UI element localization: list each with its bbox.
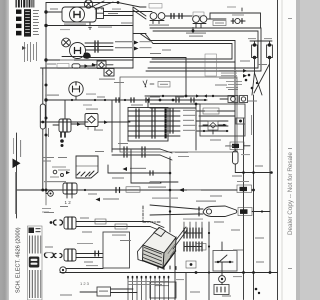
relay K3 pins — [150, 21, 164, 24]
junction dot r1 — [252, 171, 255, 174]
label relay txt — [88, 68, 97, 69]
wire K4 up link — [210, 13, 226, 19]
plug P2 tail dot2 — [61, 144, 64, 147]
wire top edge — [46, 3, 146, 8]
rear light row label — [148, 187, 166, 188]
alternator brush marks — [74, 12, 80, 18]
fuse F4 wire — [80, 65, 95, 67]
label horn row2 — [152, 198, 178, 199]
left margin vertical wire label text — [20, 140, 21, 157]
lower plug A body — [64, 217, 76, 229]
sheet number marks right margin — [288, 18, 292, 19]
label fan left — [95, 151, 104, 152]
injection pump box edge — [131, 150, 161, 183]
wire accessory row — [41, 121, 89, 123]
wire resistor drop — [107, 165, 109, 173]
label resistor 2 — [103, 198, 119, 199]
enclosure glyph cluster — [143, 80, 154, 87]
label wire red — [108, 13, 118, 14]
bottom switch S2 — [215, 242, 233, 263]
label right y140 — [210, 140, 221, 141]
harness loop B — [148, 31, 258, 68]
wire terminal 4 drop — [185, 58, 187, 97]
relay box K3 label — [149, 4, 162, 9]
dash boundary vertical — [142, 206, 144, 222]
plug P2 tail dot — [60, 139, 64, 143]
label wire 11 — [112, 9, 121, 10]
lower plug B body — [64, 249, 76, 261]
wire lower A2 — [76, 226, 150, 228]
label breaker left — [227, 7, 236, 8]
wire R1 bottom — [235, 164, 271, 173]
glow box mid right — [230, 142, 244, 150]
svg-text:SCH. ELECT. 4626 (2000): SCH. ELECT. 4626 (2000) — [16, 227, 22, 293]
label panel top — [131, 105, 143, 106]
harness loop C — [140, 34, 235, 63]
glowplug arrow mid — [179, 188, 185, 192]
starter M1 motor — [70, 43, 86, 59]
wire y182 short — [150, 181, 178, 183]
relay cluster dots — [203, 124, 228, 132]
wire resistor row — [108, 172, 170, 174]
wire harness row96 — [145, 95, 235, 97]
inline label box A1 — [95, 219, 106, 224]
bottom device box — [214, 285, 229, 295]
label shift 45 — [189, 36, 203, 37]
right trunk x243 — [243, 118, 245, 273]
glowplug black square — [240, 187, 248, 191]
sol wire vertical text — [251, 115, 252, 135]
wire lower A1 — [76, 221, 150, 223]
label top lamp row — [44, 181, 66, 182]
starter body line — [62, 56, 82, 58]
small labeled box x196 — [196, 244, 206, 251]
wire acc bus row — [46, 59, 133, 61]
relay starter cluster diamond — [210, 123, 216, 129]
bold glyph column at panel edge — [165, 109, 167, 139]
alternator connector box — [97, 8, 104, 19]
headlight option glyph cluster — [50, 167, 70, 178]
label fuse row — [248, 38, 256, 39]
ECU hatch lines — [143, 248, 162, 269]
horn tail pins — [198, 207, 200, 216]
ECU side hatch — [166, 241, 176, 257]
label right y262 — [256, 262, 264, 263]
ECU tab — [154, 228, 166, 237]
wire fuse header — [250, 40, 272, 42]
wire from bottom box b — [111, 292, 138, 294]
wire alternator excite — [104, 15, 134, 17]
lamp symbol circle — [48, 191, 54, 197]
pump box — [103, 232, 130, 268]
diag drop from rows — [160, 149, 172, 160]
label rows topright — [175, 152, 188, 153]
label bot y296 — [222, 296, 231, 297]
relay K1 diamond — [99, 62, 105, 68]
harness loop A — [146, 28, 261, 71]
black glyph cluster right — [243, 69, 258, 89]
instrument panel box — [128, 108, 168, 142]
wire horn out — [252, 211, 270, 213]
relay panel inner label 1 — [205, 111, 217, 112]
row stub wires right — [196, 111, 235, 131]
label wire 30a — [50, 9, 58, 10]
starter solenoid blob — [83, 53, 91, 59]
glow relay K2 box — [104, 69, 114, 77]
wire F2 branch right — [269, 64, 272, 150]
key row junction dots — [71, 99, 206, 101]
label right y90 — [228, 89, 238, 90]
bottom right glyphs — [255, 288, 260, 294]
lower circle dot — [62, 269, 64, 271]
label row y104 — [150, 97, 160, 98]
label row y104b — [175, 97, 184, 98]
label y194 — [88, 194, 97, 195]
wire main top horizontal — [46, 25, 133, 27]
inline connector pair 1 — [171, 14, 174, 19]
label y183 — [150, 182, 160, 183]
connector grid 1 frame — [184, 232, 202, 234]
label bus small2 — [48, 128, 49, 137]
wire from bottom box a — [111, 288, 134, 290]
lower-left sym a dot — [50, 221, 53, 224]
wire F2 stub up — [269, 41, 271, 45]
key switch contacts — [73, 82, 80, 92]
wire plug row — [71, 123, 85, 125]
left margin vertical text — [15, 172, 16, 214]
aux relay box top a — [228, 96, 238, 103]
fuse F4 label box — [57, 64, 69, 69]
connector row 4 — [128, 124, 180, 128]
wire bottom trunk — [60, 272, 278, 274]
inline connector pair 2 — [179, 14, 182, 19]
label right y222 — [214, 222, 224, 223]
relay K5 box — [85, 114, 98, 127]
connector row 5 — [128, 129, 180, 133]
ECU dark bottom edge — [143, 251, 176, 268]
left bus ACC — [42, 68, 44, 190]
inline connector pairs on key row — [116, 98, 194, 102]
wire K4 out — [207, 18, 226, 20]
left margin drop wire — [16, 133, 18, 218]
wire mid riser x196 — [195, 104, 197, 150]
horn arrow connector — [203, 206, 237, 217]
plug P2 drop — [64, 100, 66, 119]
wire fuse F2 down — [254, 58, 270, 94]
wire y122 to panel edge — [113, 121, 130, 123]
relay K3 coil circle A — [150, 13, 157, 20]
cab enclosure box — [120, 77, 237, 152]
arrow fuse feed — [85, 64, 89, 68]
lower-left connector sym b — [45, 253, 47, 258]
front light plug pins — [67, 183, 72, 194]
connector row 2 — [128, 114, 180, 118]
label row161 — [42, 161, 51, 162]
label y280 rows — [128, 280, 168, 283]
lamp housing inner line — [76, 165, 98, 167]
glowplug label box right — [237, 185, 252, 193]
horn black square — [240, 209, 248, 214]
wire alternator feed — [46, 11, 62, 13]
alternator fan circle — [84, 0, 92, 8]
arrow K5 out — [104, 120, 108, 124]
label y262 — [84, 262, 93, 263]
label under relay — [99, 79, 115, 80]
label batt — [140, 41, 152, 42]
svg-text:1 2 3: 1 2 3 — [80, 281, 90, 286]
label fuse link — [47, 64, 56, 65]
alternator pulley lines — [93, 1, 114, 9]
label above K5 — [86, 109, 98, 110]
wire starter terminal 2 — [86, 46, 114, 48]
ECU wires up right — [173, 227, 187, 249]
alternator G1 body — [62, 7, 96, 22]
small cluster right of grids — [186, 261, 196, 268]
label right y101 — [248, 101, 257, 102]
wire y190 to box — [207, 189, 237, 191]
wire P2 left stub — [53, 124, 59, 126]
label y212 — [44, 212, 54, 213]
dash boundary horiz — [143, 221, 161, 223]
relay K1 box — [97, 61, 106, 69]
wire bottom right drops — [244, 273, 254, 300]
relay K3 coil circle B — [158, 13, 165, 20]
relay K1 wires — [92, 64, 113, 66]
front light plug body — [63, 183, 77, 194]
pin pair before box — [116, 188, 120, 193]
wire top bus to right — [133, 33, 146, 35]
wire harness row108 — [150, 107, 196, 109]
label ign — [140, 47, 152, 48]
bottom label box text — [99, 291, 108, 292]
top harness label 1 — [98, 27, 112, 28]
connector legend checker column — [16, 10, 22, 36]
connector grid 2 frame — [184, 246, 202, 248]
arrow plug row — [77, 122, 81, 126]
inline label box on y190 — [126, 187, 140, 192]
drop top ticks — [127, 276, 169, 278]
barcode — [16, 0, 35, 8]
mid row dots — [159, 95, 198, 106]
label right y68 — [258, 64, 267, 65]
left margin vertical text2 — [13, 138, 14, 154]
small comp on B2 — [95, 251, 99, 256]
wire feed pair a — [133, 7, 146, 16]
wire R1 top — [234, 150, 236, 152]
lower-left connector sym a2 — [60, 220, 63, 225]
alternator G1 — [70, 7, 85, 22]
resistor arrow — [123, 167, 128, 171]
small part drop — [192, 28, 194, 33]
starter M1 brush — [75, 48, 81, 54]
bus stub y68 — [43, 67, 46, 69]
label mid y57 — [150, 53, 161, 54]
horn tail — [196, 209, 203, 214]
small part dot — [192, 29, 195, 32]
aux relay circle b — [241, 97, 245, 101]
wire lower B1 — [76, 253, 103, 255]
bottom harness box — [150, 282, 176, 298]
bottom device marks — [217, 287, 225, 292]
lower-left connector sym b2 — [51, 253, 54, 258]
wire F1 stub up — [254, 41, 256, 45]
wire riser x170 — [169, 157, 171, 232]
row labels right side — [183, 110, 197, 131]
left margin wire to schematic — [17, 189, 22, 191]
relay starter cluster box — [208, 121, 218, 130]
wire glow box stubs — [226, 145, 250, 147]
aux rect below cab — [205, 54, 217, 76]
lower plug A pins — [68, 217, 72, 229]
starter wire connector pairs — [95, 41, 98, 52]
panel riser x148 — [147, 100, 149, 108]
label alternator — [64, 24, 86, 25]
bottom switch box — [213, 251, 237, 272]
ECU fuse panel 3d top face — [143, 228, 176, 254]
connector row 1 — [128, 109, 180, 113]
relay K4 group — [193, 12, 207, 28]
alternator connector pin ticks — [98, 8, 102, 10]
horn inner circle — [206, 209, 211, 214]
vertical riser x235 — [234, 62, 236, 150]
label y283 rows — [128, 283, 162, 286]
label right y60 — [240, 61, 250, 62]
label right y85 — [215, 85, 227, 86]
left bus tail text2 — [42, 212, 49, 213]
label right of arrow — [187, 189, 201, 190]
wire lower B2 — [76, 257, 103, 259]
lower-left connector sym b3 — [54, 254, 56, 258]
aux relay circle a — [231, 97, 236, 102]
label below K5 — [94, 130, 103, 131]
label y218 — [80, 218, 89, 219]
connector row 3 — [128, 119, 180, 123]
label mid bottom — [86, 265, 98, 266]
label glow — [114, 82, 124, 83]
label ign sw right — [86, 94, 96, 95]
label bus small — [42, 75, 43, 83]
label sw b — [97, 97, 105, 98]
label y232 — [82, 232, 92, 233]
wire top right run — [226, 13, 261, 28]
wire key switch row — [46, 99, 207, 101]
alternator fan cross — [86, 1, 92, 7]
wire starter terminal 3 — [86, 49, 113, 51]
breaker circle cluster — [231, 18, 245, 23]
trunk x209 dots — [208, 232, 210, 274]
note icon — [22, 46, 26, 50]
alternator connector divider — [97, 12, 104, 14]
plug P2 body — [59, 119, 71, 132]
ground alternator — [88, 22, 93, 29]
glow relay K2 diamond — [106, 70, 112, 76]
trunk x209 — [208, 222, 210, 300]
label row158b — [58, 157, 67, 158]
label mid y50 — [162, 50, 171, 51]
tick row above trunk — [158, 266, 176, 270]
label near plug B — [45, 252, 53, 253]
key switch stem — [75, 96, 77, 100]
label fuse row2 — [264, 38, 272, 39]
label right y166 — [255, 166, 263, 167]
glow box mid black square — [232, 144, 239, 148]
bottom motor dot — [221, 278, 223, 280]
fan row 1 pins — [124, 147, 145, 151]
horn label box — [238, 208, 252, 216]
wire harness row104 — [150, 103, 200, 105]
left bus B+ — [45, 3, 47, 191]
aux relay box top b — [240, 96, 248, 103]
wire starter terminal 4 — [90, 57, 186, 59]
wire glow box out — [252, 189, 254, 191]
vertical link x133 — [132, 7, 134, 68]
inline label box A2 — [115, 224, 127, 229]
panel riser x112 — [111, 100, 113, 152]
connector row 6 — [128, 134, 180, 138]
wire fan row 1 — [112, 148, 160, 150]
ECU left bracket — [138, 245, 144, 261]
left margin arrow — [13, 159, 21, 169]
label horn row — [196, 201, 216, 202]
fuse on left bus — [40, 104, 45, 129]
label acc ignition — [115, 47, 132, 48]
terminal label box — [213, 21, 226, 26]
label resistor — [130, 168, 146, 169]
relay K5 pins — [88, 127, 95, 130]
harness loop D — [145, 34, 232, 60]
bottom motor M2 — [219, 276, 226, 283]
label key switch — [45, 95, 59, 96]
label rows topright2 — [178, 156, 189, 157]
label fuel 1 — [83, 105, 92, 106]
wire aux relay left — [220, 98, 228, 100]
resistor arrow 2 — [96, 198, 101, 202]
junction dot r1b — [242, 171, 245, 174]
label K3 under — [149, 25, 169, 26]
junction horn — [261, 210, 263, 212]
frame right border — [277, 0, 279, 300]
grid top stubs — [184, 222, 202, 228]
title block column — [28, 226, 43, 300]
lamp housing outline — [76, 156, 98, 178]
relay K1 arrow — [92, 63, 96, 67]
wire feed pair b — [133, 10, 146, 19]
relay panel part right — [236, 118, 245, 124]
small comp row3 pins — [150, 171, 153, 175]
legend note rotated text block — [24, 42, 37, 62]
wire starter terminal 1 — [85, 42, 113, 44]
grid labels — [183, 219, 203, 220]
connector grid 1 bars — [184, 228, 202, 238]
left bus tail — [45, 190, 47, 205]
ECU side face — [163, 238, 176, 269]
relay panel inner box 1 — [203, 108, 219, 114]
tiny text block right — [219, 70, 237, 79]
label right y238 — [255, 238, 264, 239]
fuse F4 — [72, 64, 80, 68]
label right y196 — [210, 196, 222, 197]
wire into bottom box — [80, 291, 97, 293]
label bottom mid — [176, 279, 184, 280]
fan row 2 pins — [124, 153, 145, 157]
arrow terminal b — [134, 47, 139, 51]
fuse F1 — [252, 43, 258, 59]
starter M1 fan circle — [62, 38, 71, 47]
label R1 — [241, 154, 250, 155]
left bus tail text — [42, 208, 51, 209]
R1 out glyph — [270, 171, 273, 174]
wire lower C1 — [66, 268, 103, 270]
